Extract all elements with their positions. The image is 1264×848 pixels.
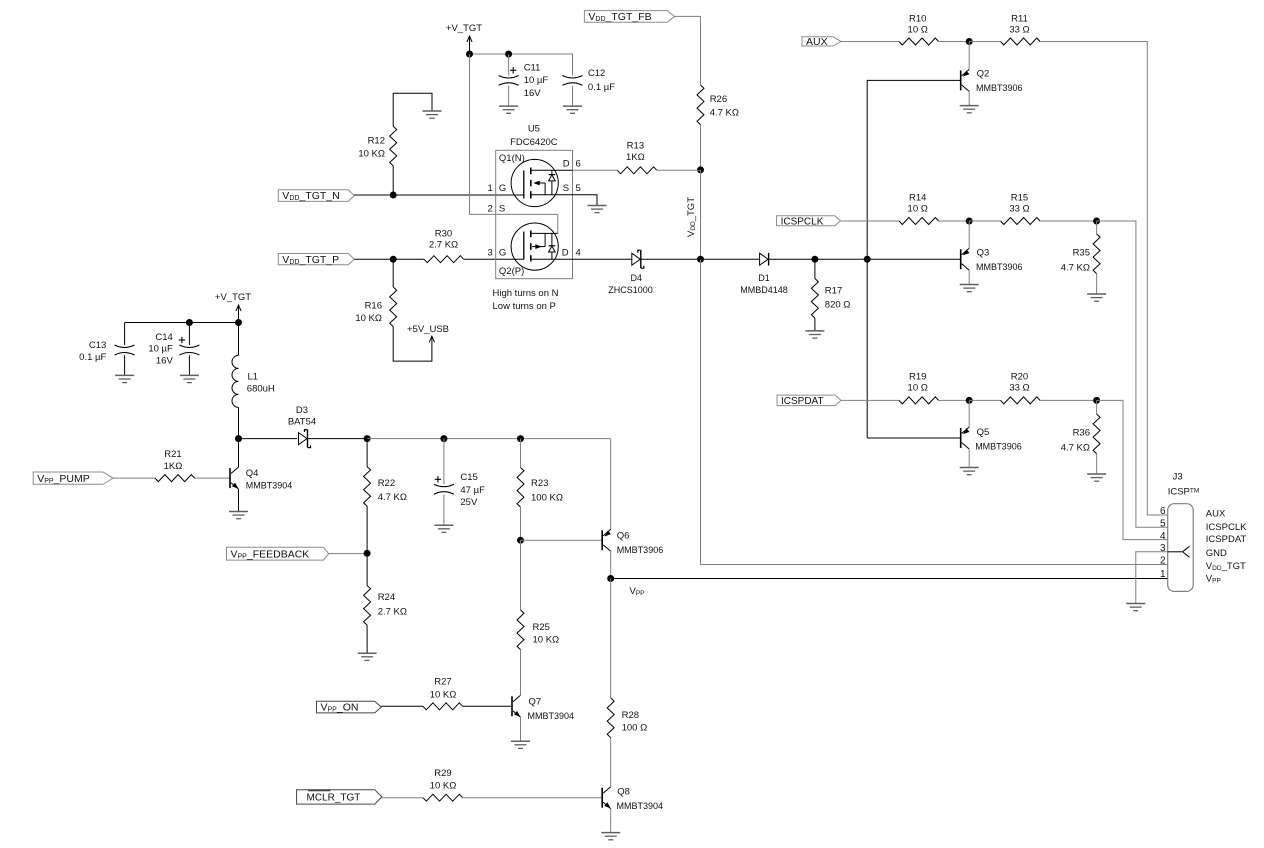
svg-text:VDD_TGT: VDD_TGT [1206,561,1246,572]
flag ICSPDAT [777,395,841,407]
wire Q6 base row [521,539,603,541]
transistor Q2 MMBT3906 [961,42,1023,106]
svg-text:MMBT3906: MMBT3906 [976,262,1023,272]
node ICSPDAT [966,397,973,404]
flag VPP_FEEDBACK [227,547,329,560]
mosfet Q2(P) of U5 [499,223,573,277]
svg-text:1: 1 [1160,569,1166,580]
wire node to D3 [239,438,298,440]
svg-text:FDC6420C: FDC6420C [510,137,558,148]
wire R20 to R36 node [1040,399,1097,401]
svg-text:33 Ω: 33 Ω [1009,383,1029,394]
wire R19 to node [939,399,970,401]
wire J3 GND stub [1136,552,1168,603]
wire node to R15 [969,220,1000,222]
svg-text:S: S [563,183,569,194]
svg-text:D: D [563,159,570,170]
wire R27 to Q7 base [463,705,512,707]
svg-text:AUX: AUX [806,36,828,48]
wire VDD_TGT down to J3 pin2 [701,259,1168,564]
svg-text:VDD_TGT: VDD_TGT [686,197,697,237]
svg-text:D1: D1 [758,273,770,283]
ground Q3 [960,285,979,292]
svg-text:Q3: Q3 [977,248,990,259]
svg-text:10 KΩ: 10 KΩ [358,149,385,160]
svg-text:Q4: Q4 [246,468,259,479]
svg-text:C12: C12 [588,68,605,79]
transistor Q3 MMBT3906 [961,221,1023,284]
power +V_TGT (left) [215,292,251,322]
node +V_TGT left [235,319,242,326]
ground C14 [180,375,199,382]
svg-text:ICSPDAT: ICSPDAT [781,396,824,407]
node ICSPCLK [966,218,973,225]
node C14 [186,319,193,326]
svg-text:6: 6 [1160,506,1166,517]
svg-text:C14: C14 [155,332,172,343]
resistor R20 [1001,372,1041,404]
resistor R16 [355,259,396,326]
svg-text:10 Ω: 10 Ω [908,24,928,35]
node R23 top [517,435,524,442]
wire R36 node to J3 pin4 [1097,400,1168,539]
svg-text:MMBT3904: MMBT3904 [617,801,664,811]
svg-text:R15: R15 [1011,193,1028,204]
svg-text:R35: R35 [1073,247,1090,258]
wire VPP_FEEDBACK to node [329,553,367,555]
resistor R27 [423,677,463,710]
node D3/R22 [364,435,371,442]
svg-text:MMBT3906: MMBT3906 [975,441,1022,451]
wire D1 to R17 node [769,258,815,260]
wire R21 to Q4 base [195,477,230,479]
svg-text:680uH: 680uH [247,383,275,394]
svg-text:C11: C11 [524,62,541,73]
svg-text:10 µF: 10 µF [148,344,173,355]
ground R36 [1087,474,1106,481]
svg-text:R11: R11 [1011,13,1028,24]
svg-text:Q5: Q5 [977,427,990,438]
resistor R25 [517,540,559,695]
node R13/R26 [697,166,704,173]
wire ICSPCLK to R14 [841,220,899,222]
node C15 [440,435,447,442]
wire R14 to node [939,220,970,222]
node L1/D3/Q4 [235,435,242,442]
ground Q8 [601,833,620,840]
connector J3 body [1168,472,1200,592]
svg-text:R28: R28 [622,710,639,721]
wire +V_TGT rail to C12 [470,54,573,76]
resistor R28 [607,579,647,787]
ground J3 [1126,604,1145,611]
svg-text:2.7 KΩ: 2.7 KΩ [429,239,458,250]
resistor R23 [517,439,563,541]
capacitor C15 [434,439,485,525]
ground C12 [563,106,582,113]
svg-text:4: 4 [1160,531,1166,542]
transistor Q4 MMBT3904 [230,439,292,511]
svg-text:4.7 KΩ: 4.7 KΩ [1061,442,1090,453]
svg-text:10 KΩ: 10 KΩ [533,635,560,646]
svg-text:6: 6 [576,159,581,170]
wire S5 stub to ground [573,195,598,205]
svg-text:Q2: Q2 [977,69,990,80]
wire supply to Q6 emitter [610,439,612,530]
svg-text:R10: R10 [909,13,926,24]
flag VPP_ON [317,701,382,714]
ground C11 [499,106,518,113]
node base-net crossing [864,256,871,263]
svg-text:D: D [562,248,569,259]
svg-text:MCLR_TGT: MCLR_TGT [307,793,361,804]
wire VDD_TGT vertical [700,170,702,259]
mosfet Q1(N) of U5 [499,153,573,207]
ground S5 [588,206,607,213]
svg-text:C15: C15 [460,472,477,483]
ground upper-left [423,111,442,118]
resistor R24 [364,553,407,652]
svg-text:S: S [499,204,505,215]
capacitor C13 [79,323,134,375]
flag VPP_PUMP [33,472,113,485]
wire C11 stub [508,54,510,76]
flag VDD_TGT_FB [584,11,674,24]
svg-text:R23: R23 [531,478,548,489]
svg-text:ZHCS1000: ZHCS1000 [608,285,653,295]
svg-text:MMBT3906: MMBT3906 [617,545,664,555]
resistor R29 [423,768,463,801]
capacitor C12 [563,68,616,106]
ground Q4 [229,512,248,519]
svg-text:16V: 16V [524,88,542,99]
resistor R30 [424,229,464,263]
diode D4 ZHCS1000 [608,250,653,295]
resistor R13 [617,141,657,174]
svg-text:1KΩ: 1KΩ [164,461,183,472]
node AUX [966,38,973,45]
node R35 [1093,218,1100,225]
ground R17 [805,331,824,338]
net label VPP [630,586,645,597]
capacitor C14 [148,323,199,375]
wire node to R11 [969,41,1000,43]
wire D4 to VDD_TGT node [641,258,701,260]
svg-text:2.7 KΩ: 2.7 KΩ [378,607,407,618]
resistor R17 [811,259,850,330]
wire Q2P drain to D4 [573,258,632,260]
svg-text:10 KΩ: 10 KΩ [355,313,382,324]
wire flag to VDD_TGT rail [675,16,701,85]
power +5V_USB [407,324,449,342]
node VPP [607,575,614,582]
U5 note text [493,288,559,312]
ground R24 [358,653,377,660]
svg-text:100 KΩ: 100 KΩ [531,493,563,504]
wire R30 to gate Q2P [464,258,524,260]
wire R12 to upper ground [393,93,432,126]
svg-text:10 Ω: 10 Ω [908,383,928,394]
resistor R11 [1001,13,1041,45]
wire R10 to node [939,41,970,43]
wire flag to R30 [354,258,424,260]
svg-text:R24: R24 [378,592,395,603]
wire S2 from +V_TGT [470,54,558,233]
svg-text:BAT54: BAT54 [288,417,316,428]
node R36 [1093,397,1100,404]
wire R17 node to base-net node [815,258,867,260]
svg-text:47 µF: 47 µF [460,485,485,496]
node VDD_TGT_N / R12 [390,192,397,199]
wire R29 to Q8 base [463,797,603,799]
svg-text:VPP_ON: VPP_ON [321,702,359,714]
resistor R12 [358,126,396,195]
svg-text:820 Ω: 820 Ω [825,300,851,311]
diode D1 MMBD4148 [740,253,788,295]
svg-text:2: 2 [1160,556,1166,567]
svg-text:AUX: AUX [1206,508,1226,519]
U5 package box [496,124,573,279]
svg-text:R12: R12 [368,135,385,146]
svg-text:5: 5 [576,183,581,194]
svg-text:Q6: Q6 [617,531,630,542]
svg-text:0.1 µF: 0.1 µF [79,352,106,363]
node R23/R25/Q6 [517,537,524,544]
resistor R26 [697,85,739,170]
svg-text:R20: R20 [1011,372,1028,383]
svg-text:R26: R26 [710,94,727,105]
svg-text:R21: R21 [164,449,181,460]
svg-text:C13: C13 [89,340,106,351]
resistor R14 [899,193,939,225]
svg-text:+5V_USB: +5V_USB [407,324,449,335]
wire ICSPDAT to R19 [841,399,899,401]
resistor R36 [1061,400,1100,473]
svg-text:3: 3 [1160,543,1166,554]
resistor R19 [899,372,939,404]
power +V_TGT (top) [446,23,482,54]
capacitor C11 [499,62,549,105]
resistor R15 [1001,193,1041,225]
svg-text:R14: R14 [909,193,926,204]
svg-text:4.7 KΩ: 4.7 KΩ [1061,262,1090,273]
wire AUX to R10 [841,41,899,43]
wire VPP to J3 pin1 [611,578,1168,580]
J3 pin3 key symbol [1168,546,1190,557]
ground Q2 [960,106,979,113]
svg-text:G: G [499,248,506,259]
svg-text:3: 3 [488,248,493,259]
wire R13 to node [657,169,701,171]
svg-text:High turns on N: High turns on N [493,288,559,299]
svg-text:Low turns on P: Low turns on P [493,301,556,312]
svg-text:Q1(N): Q1(N) [499,153,525,164]
wire left +V rail [125,322,239,324]
svg-text:ICSPCLK: ICSPCLK [1206,522,1247,533]
ground Q7 [511,741,530,748]
wire R15 to R35 node [1040,220,1097,222]
wire VPP_ON to R27 [381,705,423,707]
svg-text:J3: J3 [1173,472,1183,483]
svg-text:4: 4 [576,248,581,259]
svg-text:10 µF: 10 µF [524,75,549,86]
svg-text:Q7: Q7 [529,697,542,708]
resistor R21 [155,449,195,482]
node VDD_TGT / D4-D1 [697,256,704,263]
transistor Q6 MMBT3906 [602,529,663,578]
svg-text:33 Ω: 33 Ω [1009,204,1029,215]
svg-text:Q8: Q8 [617,786,630,797]
ground C15 [434,525,453,532]
wire base-net to Q5 base [867,437,961,439]
flag ICSPCLK [777,216,841,228]
svg-text:4.7 KΩ: 4.7 KΩ [378,492,407,503]
node +V_TGT top [466,51,473,58]
svg-text:0.1 µF: 0.1 µF [588,82,615,93]
svg-text:10 KΩ: 10 KΩ [430,689,457,700]
resistor R10 [899,13,939,45]
svg-text:+V_TGT: +V_TGT [446,23,482,34]
flag VDD_TGT_N [278,190,354,203]
wire R16 to +5V_USB [393,327,432,362]
wire Q2 base net [867,80,961,438]
svg-text:1KΩ: 1KΩ [626,152,645,163]
wire D3 to R22 node [308,438,368,440]
transistor Q8 MMBT3904 [602,786,663,832]
svg-text:R25: R25 [533,622,550,633]
flag VDD_TGT_P [278,254,354,267]
svg-text:ICSPCLK: ICSPCLK [781,216,824,227]
svg-text:ICSPDAT: ICSPDAT [1206,534,1247,545]
resistor R22 [364,439,407,554]
transistor Q5 MMBT3906 [961,400,1022,467]
wire R11 to J3 pin6 [1040,42,1168,516]
svg-text:R22: R22 [378,478,395,489]
wire node to R20 [969,399,1000,401]
svg-text:25V: 25V [460,497,478,508]
ground Q5 [960,468,979,475]
svg-text:MMBD4148: MMBD4148 [740,285,788,295]
net label VDD_TGT (vertical) [686,197,697,237]
diode D3 BAT54 [288,405,316,448]
ground R35 [1087,294,1106,301]
svg-text:MMBT3904: MMBT3904 [528,711,575,721]
wire supply row [367,438,611,440]
wire R35 node to J3 pin5 [1097,221,1168,527]
svg-text:D3: D3 [296,405,308,416]
J3 pin names [1206,508,1247,584]
svg-text:R17: R17 [825,286,842,297]
wire VDD_TGT_N row [354,194,524,196]
node R17 [811,256,818,263]
svg-text:+V_TGT: +V_TGT [215,292,251,303]
U5 pin labels [488,159,581,259]
svg-text:R16: R16 [365,300,382,311]
svg-text:L1: L1 [248,372,259,383]
node VPP_FEEDBACK [364,550,371,557]
resistor R35 [1061,221,1100,294]
wire MCLR_TGT to R29 [382,797,423,799]
svg-text:2: 2 [488,204,493,215]
wire VPP_PUMP to R21 [113,477,155,479]
wire drain D6 to R13 [573,169,618,171]
wire node to Q3 base [867,258,961,260]
svg-text:R30: R30 [435,229,452,240]
svg-text:MMBT3906: MMBT3906 [976,83,1023,93]
wire node to D1 [701,258,760,260]
svg-text:R27: R27 [434,677,451,688]
node VDD_TGT_P / R16 [390,256,397,263]
svg-text:1: 1 [488,183,493,194]
node C11 top [505,51,512,58]
inductor L1 680uH [232,323,275,439]
svg-text:R29: R29 [434,768,451,779]
svg-text:U5: U5 [528,124,540,135]
svg-text:4.7 KΩ: 4.7 KΩ [710,108,739,119]
svg-text:10 Ω: 10 Ω [908,204,928,215]
svg-text:GND: GND [1206,548,1227,559]
svg-text:100 Ω: 100 Ω [622,722,648,733]
svg-text:5: 5 [1160,519,1166,530]
ground C13 [115,375,134,382]
svg-text:MMBT3904: MMBT3904 [246,481,293,491]
J3 pin numbers [1160,506,1166,580]
flag MCLR_TGT [297,790,382,804]
svg-text:R19: R19 [909,372,926,383]
svg-text:10 KΩ: 10 KΩ [430,781,457,792]
flag AUX [802,36,841,48]
transistor Q7 MMBT3904 [512,695,574,740]
svg-text:G: G [499,183,506,194]
svg-text:33 Ω: 33 Ω [1009,24,1029,35]
svg-text:16V: 16V [156,356,174,367]
svg-text:D4: D4 [631,273,643,283]
svg-text:R36: R36 [1073,427,1090,438]
svg-text:Q2(P): Q2(P) [499,266,524,277]
svg-text:R13: R13 [627,141,644,152]
